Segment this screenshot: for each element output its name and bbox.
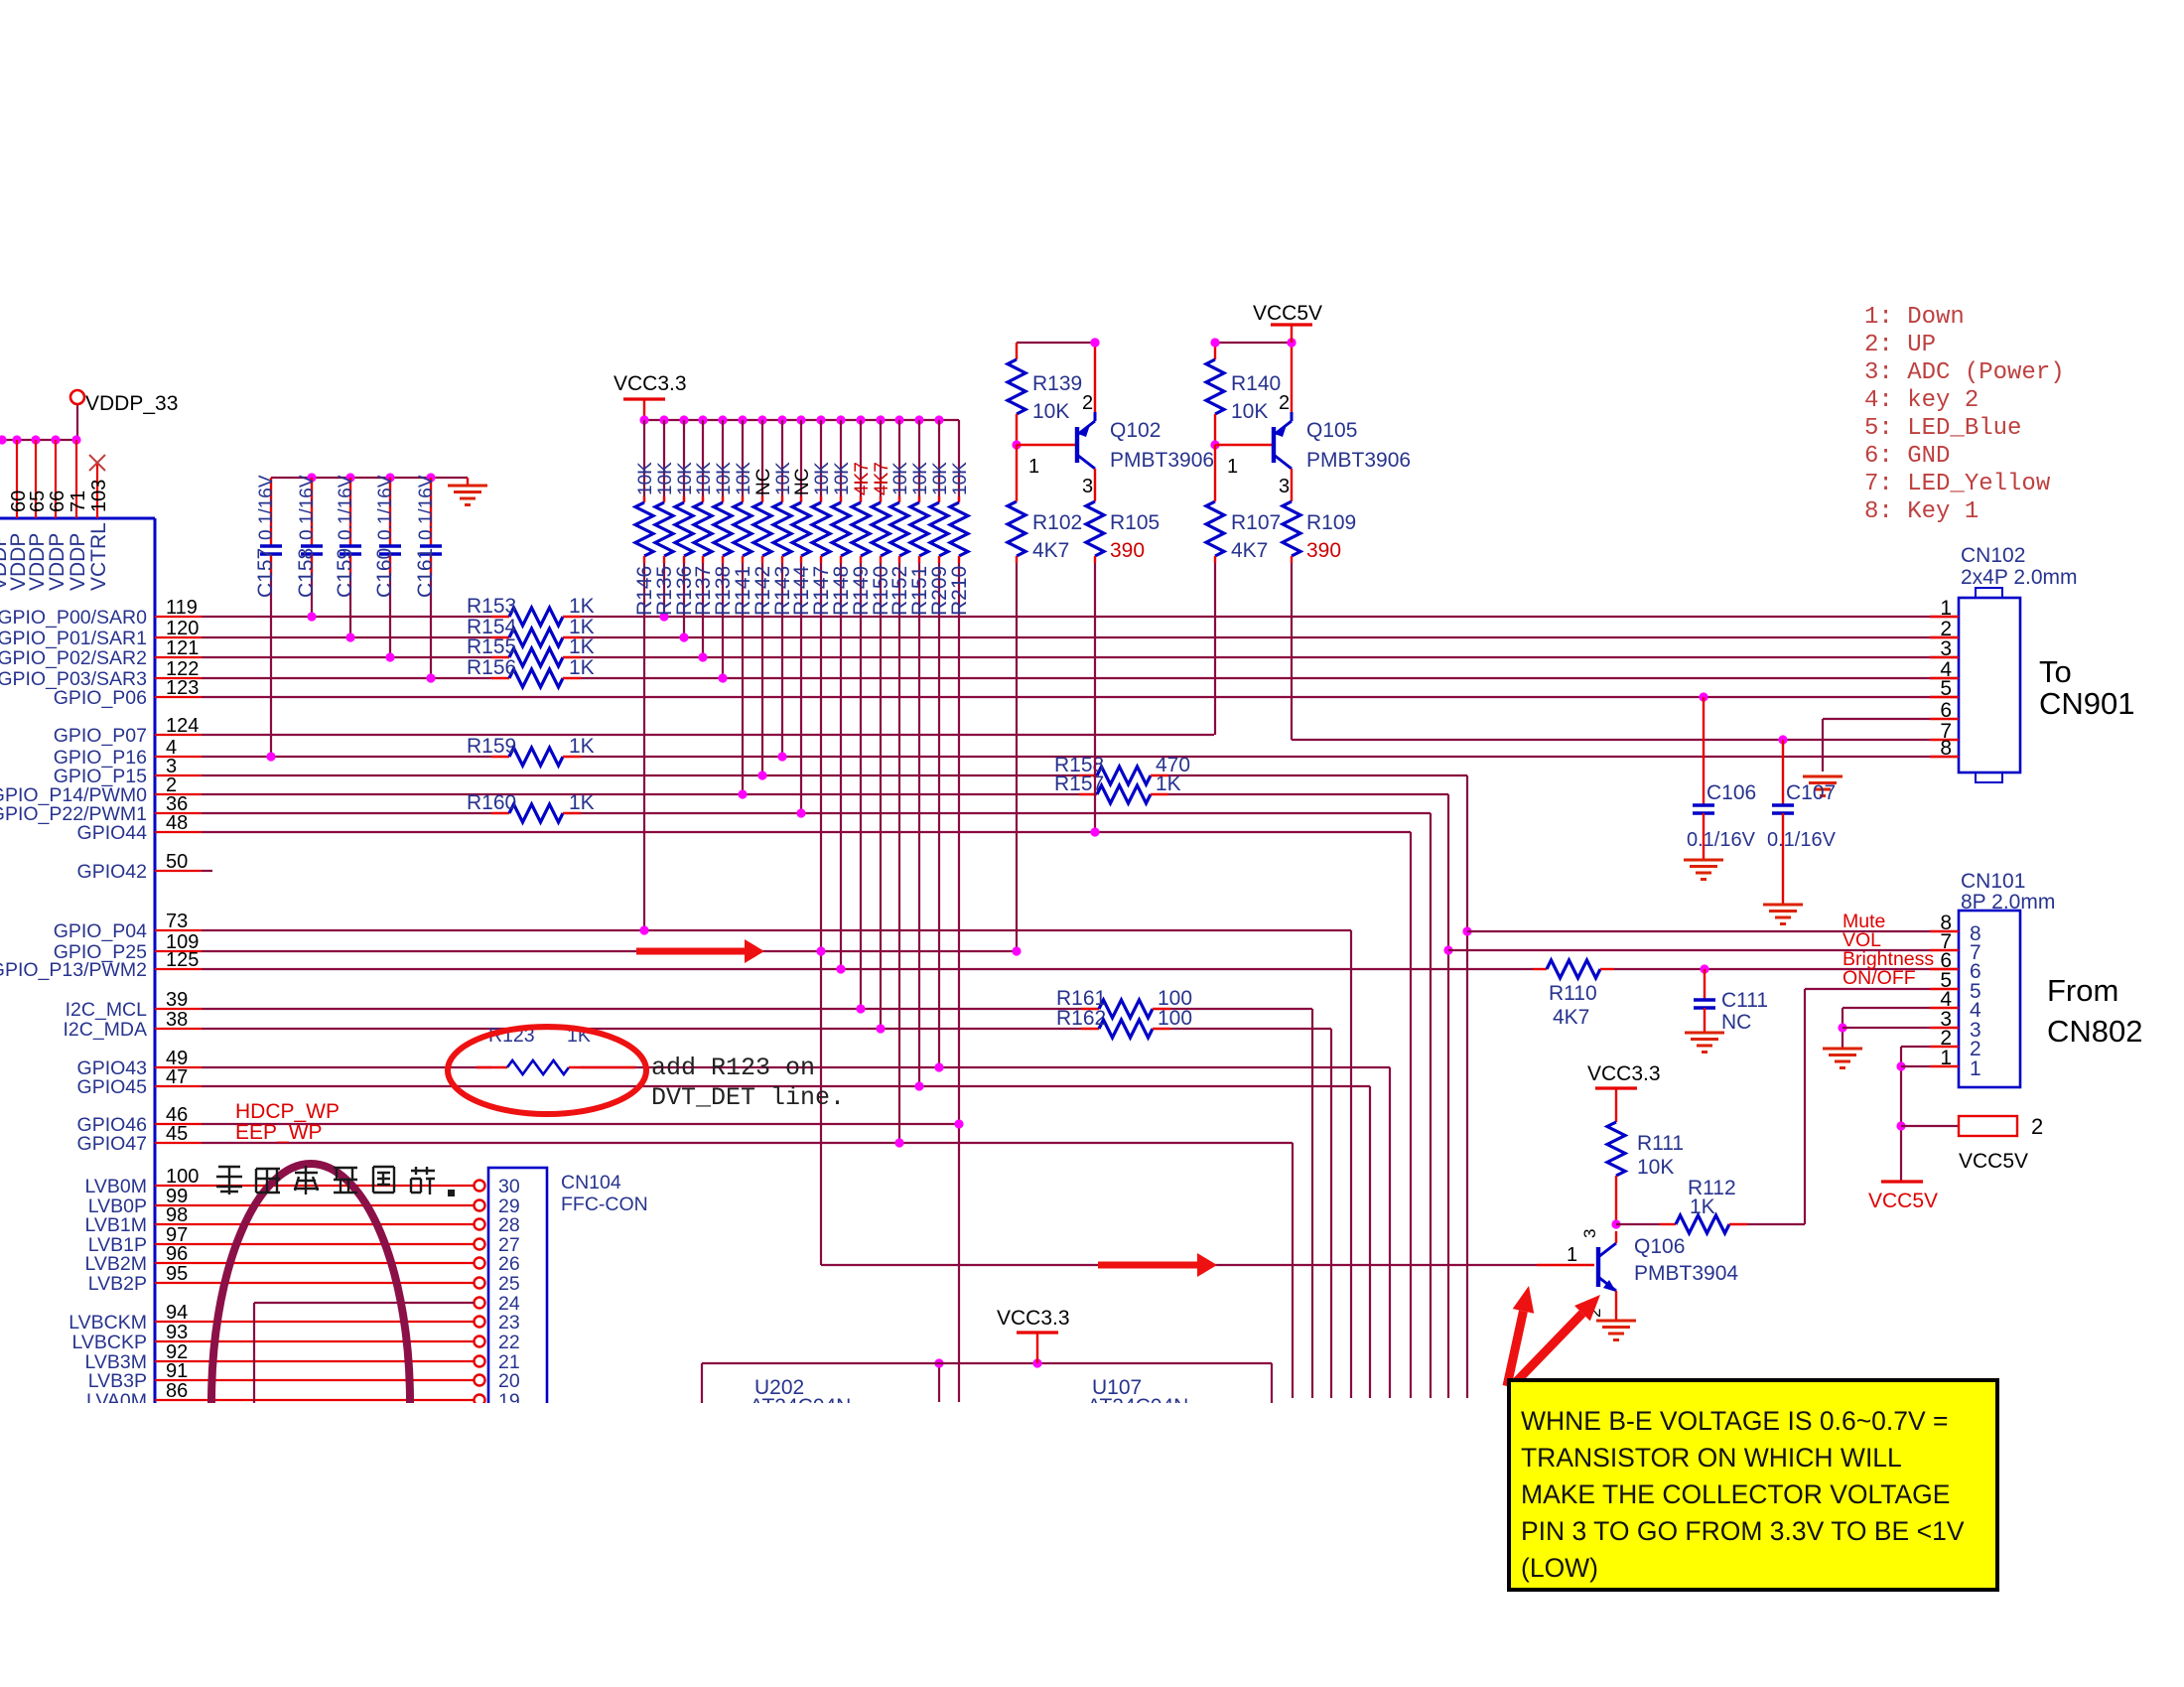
svg-text:3: 3 [1082,476,1093,497]
svg-text:R156: R156 [467,656,516,679]
svg-text:10K: 10K [655,462,676,495]
svg-text:3: 3 [1580,1229,1599,1238]
svg-text:23: 23 [498,1312,520,1334]
svg-text:To: To [2039,654,2072,689]
svg-text:10K: 10K [694,462,715,495]
svg-text:Q105: Q105 [1306,419,1357,442]
svg-text:VDDP: VDDP [46,533,68,591]
svg-text:10K: 10K [890,462,911,495]
svg-text:PMBT3904: PMBT3904 [1634,1262,1738,1285]
svg-text:1: 1 [1940,597,1952,620]
svg-text:28: 28 [498,1214,520,1236]
svg-text:25: 25 [498,1273,520,1295]
svg-text:R162: R162 [1056,1007,1106,1030]
svg-text:LVB2M: LVB2M [85,1253,148,1275]
svg-text:390: 390 [1306,539,1341,562]
svg-text:NC: NC [753,469,774,495]
svg-text:CN104: CN104 [561,1172,621,1194]
svg-text:From: From [2047,973,2118,1008]
svg-text:4K7: 4K7 [852,462,873,495]
svg-text:VDDP: VDDP [67,533,89,591]
svg-text:PIN 3 TO GO FROM 3.3V TO BE <1: PIN 3 TO GO FROM 3.3V TO BE <1V [1521,1516,1965,1546]
svg-text:4K7: 4K7 [1032,539,1069,562]
svg-text:10K: 10K [1637,1156,1674,1179]
svg-text:73: 73 [166,911,188,932]
svg-text:GPIO_P01/SAR1: GPIO_P01/SAR1 [0,628,147,649]
svg-text:GPIO45: GPIO45 [77,1076,148,1098]
svg-text:CN101: CN101 [1961,870,2025,893]
svg-text:R140: R140 [1231,372,1281,395]
svg-text:95: 95 [166,1263,188,1285]
svg-text:1K: 1K [569,791,595,814]
svg-text:65: 65 [27,491,49,512]
svg-text:50: 50 [166,851,188,873]
svg-text:5: LED_Blue: 5: LED_Blue [1864,415,2021,442]
svg-text:PMBT3906: PMBT3906 [1110,449,1214,472]
svg-text:GPIO_P04: GPIO_P04 [54,920,147,942]
svg-text:GPIO_P13/PWM2: GPIO_P13/PWM2 [0,959,147,981]
svg-text:GPIO44: GPIO44 [77,822,148,844]
svg-text:71: 71 [68,491,89,512]
svg-text:4K7: 4K7 [1231,539,1268,562]
svg-text:0.1/16V: 0.1/16V [416,475,437,540]
svg-text:1: 1 [1028,456,1039,478]
svg-text:LVB1M: LVB1M [85,1214,148,1236]
svg-text:R153: R153 [467,595,516,618]
svg-text:C107: C107 [1786,781,1836,804]
svg-text:VCC3.3: VCC3.3 [997,1307,1070,1330]
svg-text:GPIO_P07: GPIO_P07 [54,725,147,747]
svg-text:1K: 1K [569,656,595,679]
svg-text:47: 47 [166,1066,188,1088]
svg-text:4: key 2: 4: key 2 [1864,387,1979,414]
svg-text:10K: 10K [930,462,951,495]
svg-text:4K7: 4K7 [872,462,892,495]
svg-text:96: 96 [166,1243,188,1265]
svg-text:LVB3P: LVB3P [88,1370,147,1392]
svg-text:8P 2.0mm: 8P 2.0mm [1961,891,2055,914]
svg-text:10K: 10K [1231,400,1268,423]
svg-text:10K: 10K [910,462,931,495]
svg-text:7: LED_Yellow: 7: LED_Yellow [1864,471,2051,497]
svg-text:0.1/16V: 0.1/16V [297,475,318,540]
svg-text:10K: 10K [832,462,853,495]
svg-text:48: 48 [166,812,188,834]
svg-text:CN102: CN102 [1961,544,2025,567]
svg-text:C161: C161 [414,548,437,598]
svg-text:EEP_WP: EEP_WP [235,1121,323,1144]
svg-text:10K: 10K [675,462,696,495]
svg-text:20: 20 [498,1370,520,1392]
svg-text:R110: R110 [1549,982,1597,1005]
svg-text:3: 3 [1279,476,1290,497]
svg-text:LVB0M: LVB0M [85,1176,148,1197]
svg-text:0.1/16V: 0.1/16V [375,475,396,540]
svg-text:5: 5 [1940,677,1952,700]
svg-text:C111: C111 [1721,989,1768,1012]
svg-text:2: UP: 2: UP [1864,332,1936,358]
svg-text:NC: NC [792,469,813,495]
svg-text:10K: 10K [950,462,971,495]
svg-text:120: 120 [166,618,199,639]
svg-text:2: 2 [1082,392,1093,414]
svg-text:PMBT3906: PMBT3906 [1306,449,1411,472]
svg-text:10K: 10K [635,462,656,495]
svg-text:1: 1 [1970,1057,1981,1080]
svg-text:1K: 1K [569,635,595,658]
svg-text:VCC5V: VCC5V [1868,1190,1938,1212]
svg-text:10K: 10K [773,462,794,495]
svg-text:C157: C157 [254,548,277,598]
svg-text:VCC3.3: VCC3.3 [1587,1062,1661,1085]
svg-text:39: 39 [166,989,188,1011]
svg-text:R109: R109 [1306,511,1356,534]
svg-text:HDCP_WP: HDCP_WP [235,1100,340,1123]
svg-text:0.1/16V: 0.1/16V [1767,829,1837,851]
svg-text:R107: R107 [1231,511,1281,534]
svg-text:121: 121 [166,637,199,659]
svg-text:R139: R139 [1032,372,1082,395]
svg-text:1K: 1K [569,735,595,758]
svg-text:1K: 1K [569,595,595,618]
svg-text:0.1/16V: 0.1/16V [336,475,356,540]
svg-text:100: 100 [1158,1007,1192,1030]
svg-text:R157: R157 [1054,773,1104,795]
svg-text:3: 3 [1940,637,1952,660]
svg-text:1K: 1K [1690,1195,1715,1218]
svg-text:GPIO47: GPIO47 [77,1133,147,1155]
svg-text:VCC5V: VCC5V [1959,1150,2028,1173]
svg-text:6: 6 [1940,699,1952,722]
svg-text:C158: C158 [295,548,318,598]
svg-text:1K: 1K [1156,773,1181,795]
svg-text:C106: C106 [1706,781,1756,804]
svg-text:119: 119 [166,597,198,619]
svg-text:VCTRL: VCTRL [87,522,110,591]
svg-text:GPIO_P02/SAR2: GPIO_P02/SAR2 [0,647,147,669]
svg-text:1: 1 [1940,1047,1952,1069]
svg-text:86: 86 [166,1380,188,1402]
svg-text:VCC5V: VCC5V [1253,302,1322,325]
svg-text:10K: 10K [1032,400,1069,423]
svg-text:8: 8 [1940,737,1952,760]
svg-text:4K7: 4K7 [1553,1006,1589,1029]
svg-text:91: 91 [166,1360,188,1382]
svg-text:I2C_MDA: I2C_MDA [63,1019,147,1041]
svg-text:C160: C160 [373,548,396,598]
svg-text:10K: 10K [812,462,833,495]
svg-text:98: 98 [166,1204,188,1226]
svg-text:WHNE B-E VOLTAGE IS 0.6~0.7V =: WHNE B-E VOLTAGE IS 0.6~0.7V = [1521,1406,1949,1436]
svg-text:NC: NC [1721,1011,1751,1034]
svg-text:VDDP_33: VDDP_33 [85,392,178,415]
svg-text:(LOW): (LOW) [1521,1553,1598,1583]
svg-text:45: 45 [166,1123,188,1145]
svg-text:10K: 10K [734,462,754,495]
svg-text:390: 390 [1110,539,1145,562]
svg-text:1: Down: 1: Down [1864,304,1965,331]
svg-text:22: 22 [498,1332,520,1353]
svg-text:2: 2 [2031,1114,2043,1139]
svg-text:1: 1 [1567,1244,1577,1266]
svg-text:add R123 on: add R123 on [651,1054,815,1082]
svg-text:3: ADC (Power): 3: ADC (Power) [1864,359,2065,386]
svg-text:ON/OFF: ON/OFF [1843,967,1916,989]
svg-text:2: 2 [1279,392,1290,414]
svg-text:0.1/16V: 0.1/16V [1687,829,1756,851]
svg-text:R155: R155 [467,635,516,658]
svg-text:93: 93 [166,1322,188,1343]
svg-text:MAKE THE COLLECTOR VOLTAGE: MAKE THE COLLECTOR VOLTAGE [1521,1479,1950,1509]
svg-text:R105: R105 [1110,511,1160,534]
svg-text:123: 123 [166,677,199,699]
svg-text:R210: R210 [948,566,971,616]
svg-text:Q102: Q102 [1110,419,1160,442]
svg-text:VCC3.3: VCC3.3 [614,372,687,395]
svg-text:124: 124 [166,715,199,737]
svg-text:100: 100 [166,1166,199,1188]
svg-text:Q106: Q106 [1634,1235,1685,1258]
svg-text:GPIO42: GPIO42 [77,861,147,883]
svg-text:LVB2P: LVB2P [88,1273,147,1295]
svg-text:103: 103 [88,480,110,512]
svg-text:LVBCKM: LVBCKM [68,1312,147,1334]
svg-text:TRANSISTOR ON WHICH WILL: TRANSISTOR ON WHICH WILL [1521,1443,1902,1473]
svg-text:R160: R160 [467,791,516,814]
svg-text:CN901: CN901 [2039,686,2135,721]
svg-text:30: 30 [498,1176,520,1197]
svg-text:38: 38 [166,1009,188,1031]
svg-text:1: 1 [1227,456,1238,478]
svg-text:I2C_MCL: I2C_MCL [66,999,148,1021]
svg-text:GPIO_P00/SAR0: GPIO_P00/SAR0 [0,607,147,629]
svg-text:10K: 10K [714,462,735,495]
svg-text:8: Key 1: 8: Key 1 [1864,498,1979,525]
svg-text:6: GND: 6: GND [1864,443,1950,470]
svg-text:R111: R111 [1637,1132,1684,1155]
svg-text:125: 125 [166,949,199,971]
svg-text:0.1/16V: 0.1/16V [256,475,277,540]
svg-text:26: 26 [498,1253,520,1275]
svg-text:R102: R102 [1032,511,1082,534]
svg-text:R159: R159 [467,735,516,758]
svg-text:94: 94 [166,1302,188,1324]
svg-text:66: 66 [47,491,68,512]
svg-text:LVBCKP: LVBCKP [71,1332,147,1353]
svg-text:C159: C159 [334,548,356,598]
svg-text:2x4P 2.0mm: 2x4P 2.0mm [1961,566,2078,589]
svg-text:GPIO_P06: GPIO_P06 [54,687,147,709]
svg-text:DVT_DET line.: DVT_DET line. [651,1083,845,1112]
svg-text:FFC-CON: FFC-CON [561,1194,648,1215]
svg-text:CN802: CN802 [2047,1014,2143,1049]
